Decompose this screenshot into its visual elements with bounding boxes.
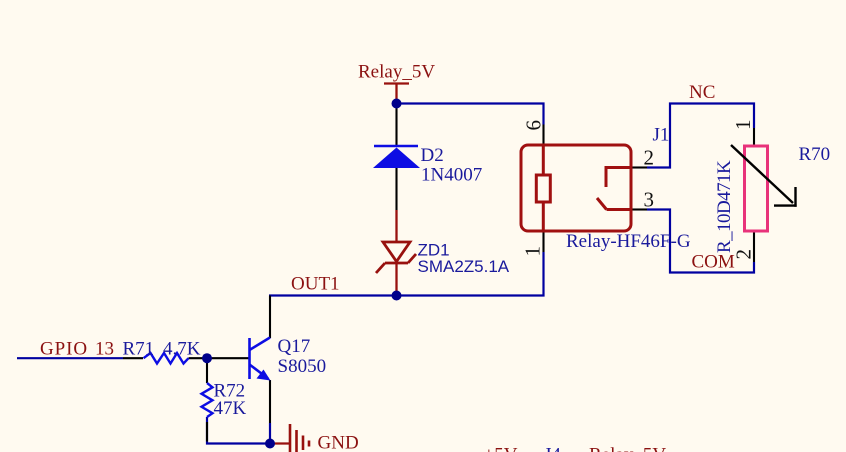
svg-text:R_10D471K: R_10D471K	[714, 160, 735, 253]
svg-text:Q17: Q17	[278, 336, 311, 357]
svg-text:Relay-HF46F-G: Relay-HF46F-G	[566, 231, 691, 252]
svg-text:13: 13	[95, 339, 114, 360]
svg-text:2: 2	[644, 146, 655, 170]
svg-text:1: 1	[521, 246, 545, 257]
svg-text:47K: 47K	[214, 398, 247, 419]
svg-text:J1: J1	[653, 125, 670, 146]
svg-text:4.7K: 4.7K	[163, 339, 201, 360]
svg-text:OUT1: OUT1	[291, 274, 340, 295]
svg-text:R71: R71	[123, 339, 155, 360]
svg-text:J4: J4	[544, 445, 561, 452]
svg-text:GPIO: GPIO	[40, 339, 88, 360]
svg-text:1: 1	[731, 120, 755, 131]
svg-text:S8050: S8050	[278, 356, 327, 377]
svg-text:Relay_5V: Relay_5V	[589, 445, 666, 452]
svg-text:Relay_5V: Relay_5V	[358, 62, 435, 83]
svg-text:D2: D2	[421, 145, 444, 166]
svg-text:1N4007: 1N4007	[421, 165, 482, 186]
svg-text:NC: NC	[689, 82, 715, 103]
svg-text:GND: GND	[318, 433, 359, 452]
svg-text:COM: COM	[692, 252, 735, 273]
svg-text:6: 6	[522, 120, 546, 131]
svg-text:+5V: +5V	[484, 445, 518, 452]
svg-text:SMA2Z5.1A: SMA2Z5.1A	[418, 257, 510, 276]
svg-text:R70: R70	[799, 144, 831, 165]
svg-text:3: 3	[644, 188, 655, 212]
svg-text:2: 2	[732, 249, 756, 260]
